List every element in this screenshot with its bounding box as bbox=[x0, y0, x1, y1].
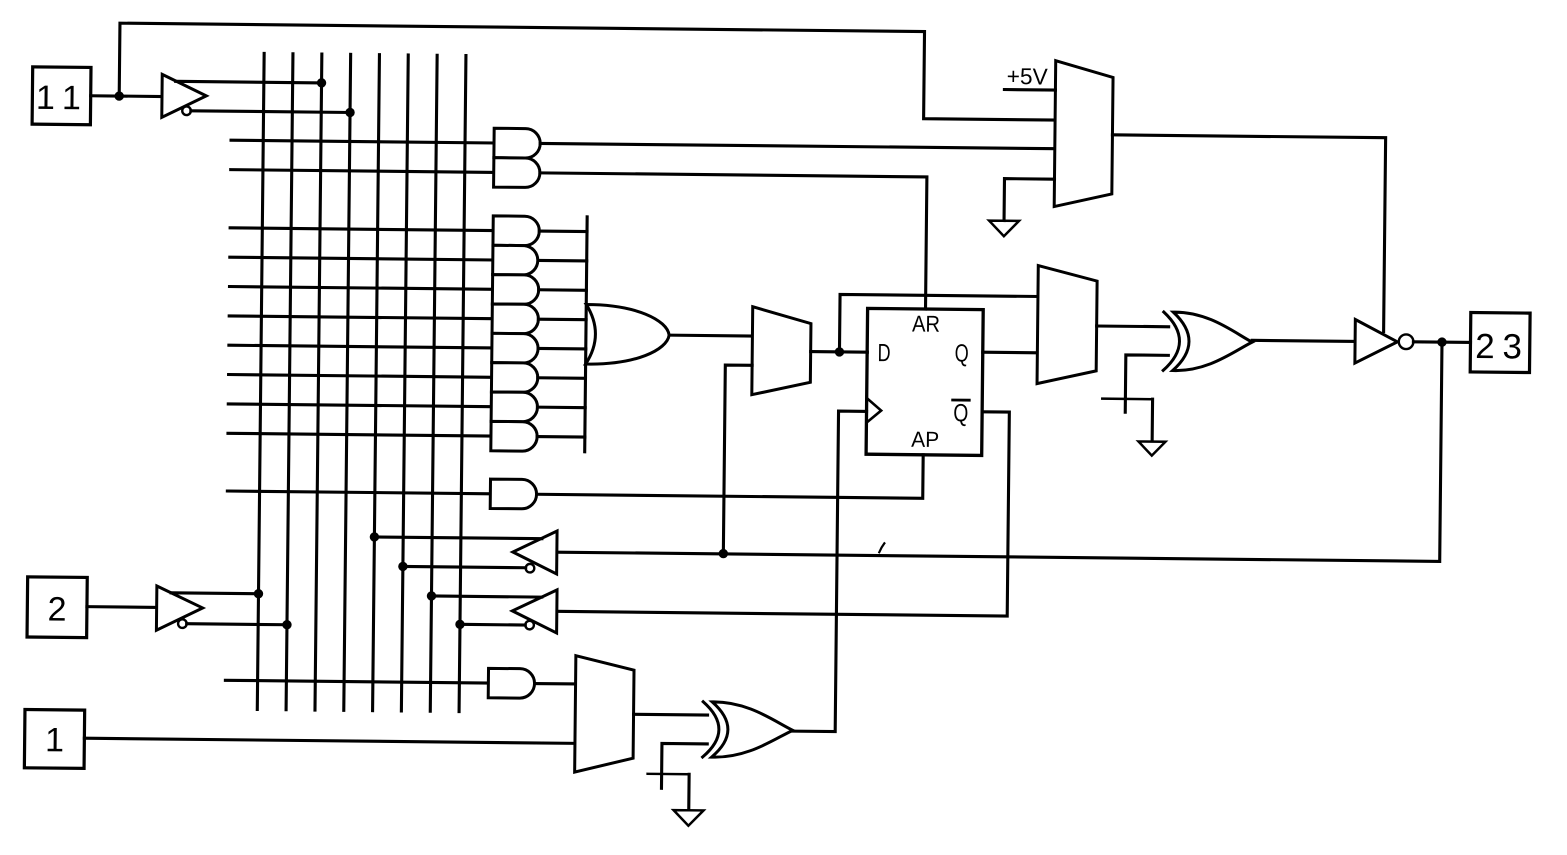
node tap c4 bbox=[345, 108, 354, 117]
node tap c6 bbox=[398, 562, 407, 571]
node tap c5 bbox=[370, 532, 379, 541]
svg-text:2: 2 bbox=[1475, 327, 1495, 366]
svg-text:2: 2 bbox=[47, 591, 66, 629]
AND gate A (row 1) bbox=[494, 128, 541, 158]
svg-text:D: D bbox=[877, 339, 890, 367]
OR gate (sum of products) bbox=[586, 304, 670, 364]
AND gate P7 bbox=[491, 392, 538, 422]
AND-array row 12 (OE product term) bbox=[225, 680, 488, 683]
wire output feedback to TRI1 bbox=[557, 333, 1442, 562]
ground (mux2 input) bbox=[989, 221, 1019, 237]
flip-flop clock triangle bbox=[866, 398, 881, 423]
AND-array row 7 (product term 5) bbox=[229, 345, 492, 348]
input pin box 1 bbox=[24, 710, 84, 769]
AND-array column 7 bbox=[430, 55, 437, 711]
buffer B2 (pin 2 input buffer) bbox=[156, 586, 202, 631]
feedback buffer TRI2 bbox=[512, 589, 557, 633]
ground (XOR2) bbox=[673, 810, 703, 826]
bubble B2 inverted bbox=[178, 619, 187, 628]
AND-array column 5 bbox=[373, 55, 380, 711]
node output 23 junction bbox=[1437, 337, 1446, 346]
wire XOR2 lower input fuse bbox=[661, 743, 707, 788]
AND gate P4 bbox=[492, 304, 539, 334]
wire XOR2 output to clock bbox=[793, 411, 867, 732]
wire fuse to ground (XOR1) bbox=[1151, 399, 1155, 440]
mux M4 (OE select) bbox=[575, 656, 635, 773]
wire Qbar to TRI2 bbox=[557, 407, 1010, 616]
AND gate P6 bbox=[491, 363, 538, 393]
XOR gate X2 input arc bbox=[703, 702, 720, 757]
AND-array column 6 bbox=[401, 55, 408, 711]
wire mux4 output to XOR2 bbox=[634, 713, 708, 717]
wire XOR1 to tristate bbox=[1252, 340, 1355, 341]
XOR gate X1 body bbox=[1173, 312, 1253, 371]
bubble TRI1 inverted bbox=[526, 564, 535, 573]
fuse bar (XOR1 polarity) bbox=[1102, 397, 1152, 400]
bubble tristate output bbox=[1399, 334, 1414, 349]
tristate inverter Q1 bbox=[1355, 320, 1398, 364]
mux M2 (clock select) bbox=[1054, 61, 1113, 207]
AND-array row 5 (product term 3) bbox=[230, 287, 493, 290]
svg-text:AP: AP bbox=[911, 427, 939, 452]
svg-text:+5V: +5V bbox=[1007, 63, 1049, 89]
wire mux3 output to XOR1 bbox=[1097, 324, 1169, 328]
wire P7 output stub bbox=[537, 406, 585, 410]
AND-array column 8 bbox=[459, 56, 466, 712]
AND-array column 4 bbox=[344, 54, 351, 710]
wire P3 output stub bbox=[539, 288, 587, 292]
svg-text:Q: Q bbox=[955, 340, 969, 368]
mux M1 (D-source select) bbox=[752, 307, 811, 396]
svg-text:1: 1 bbox=[62, 79, 81, 117]
node pin11 feedback junction bbox=[114, 91, 123, 100]
flip-flop U1 box bbox=[866, 308, 983, 455]
AND gate P3 bbox=[492, 275, 539, 305]
XOR gate X2 body bbox=[712, 702, 793, 758]
svg-text:1: 1 bbox=[36, 79, 55, 117]
wire AND-AP output to AP input bbox=[537, 451, 924, 499]
wire P5 output stub bbox=[538, 347, 586, 351]
node tap c2 bbox=[282, 620, 291, 629]
wire +5V input bbox=[1004, 88, 1055, 92]
AND gate P5 bbox=[492, 333, 539, 363]
wire D-node up to mux3 bbox=[839, 294, 1037, 354]
wire pin11 to buffer bbox=[91, 94, 162, 98]
bubble TRI2 inverted bbox=[525, 621, 534, 630]
ground (XOR1 polarity) bbox=[1138, 441, 1165, 455]
wire B2 inverted output to column 2 bbox=[187, 624, 287, 625]
wire AND-OE output to mux4 bbox=[535, 682, 576, 686]
wire pin11 to clock mux (top run) bbox=[119, 23, 1056, 120]
wire mux1 output to D bbox=[811, 350, 868, 354]
wire P4 output stub bbox=[538, 318, 586, 322]
AND-array row 10 (product term 8) bbox=[228, 433, 491, 436]
AND-array column 3 bbox=[315, 54, 322, 710]
AND gate P8 bbox=[491, 421, 538, 451]
wire AND-A to clock mux bbox=[540, 143, 1055, 149]
wire B11 true output to column 3 bbox=[176, 81, 322, 83]
input pin box 2 bbox=[27, 577, 87, 638]
node tap c7 bbox=[427, 591, 436, 600]
wire Q to mux3 bbox=[983, 351, 1038, 355]
buffer B11 (pin 11 input buffer) bbox=[162, 74, 207, 117]
fuse bar (XOR2) bbox=[648, 773, 689, 776]
AND gate B (row 2) bbox=[494, 158, 540, 188]
wire mux1 lower input from feedback bbox=[723, 365, 752, 554]
speck bbox=[879, 543, 884, 552]
wire P6 output stub bbox=[538, 376, 586, 380]
mux M3 (output select) bbox=[1037, 266, 1097, 385]
wire P8 output stub bbox=[537, 435, 585, 439]
node tap c3 bbox=[317, 78, 326, 87]
wire pin2 to buffer bbox=[87, 605, 157, 609]
svg-text:AR: AR bbox=[912, 310, 940, 336]
AND-array row 9 (product term 7) bbox=[228, 404, 491, 407]
AND-array column 1 bbox=[257, 53, 264, 709]
output pin box 23 bbox=[1470, 313, 1530, 373]
wire pin1 to mux4 bbox=[84, 738, 575, 743]
wire B11 inverted output to column 4 bbox=[191, 111, 350, 113]
wire TRI1 true output to column 5 bbox=[374, 537, 541, 539]
wire XOR1 lower input fuse bbox=[1125, 355, 1168, 413]
wire fuse to ground (XOR2) bbox=[687, 774, 690, 809]
svg-text:Q: Q bbox=[953, 399, 968, 427]
node tap c8 bbox=[455, 620, 464, 629]
wire product-term bus vertical bbox=[585, 217, 587, 452]
AND-array row 6 (product term 4) bbox=[229, 316, 492, 319]
node tap c1 bbox=[254, 589, 263, 598]
AND-array row 2 (top AND pair input) bbox=[231, 170, 494, 173]
AND gate P2 bbox=[493, 245, 538, 275]
AND-array row 8 (product term 6) bbox=[229, 375, 492, 378]
wire tristate to pin 23 bbox=[1413, 340, 1470, 344]
AND-array row 11 (AP product term) bbox=[227, 491, 490, 494]
wire P2 output stub bbox=[539, 259, 587, 263]
wire AND-B to AR input bbox=[539, 173, 927, 309]
wire mux2 ground input bbox=[1004, 179, 1054, 221]
AND gate AP term (row 11) bbox=[490, 479, 537, 509]
wire mux2 output to OE bbox=[1110, 135, 1385, 332]
bubble B11 inverted output bbox=[182, 106, 191, 115]
AND-array row 3 (product term 1) bbox=[230, 228, 493, 231]
svg-text:1: 1 bbox=[45, 721, 64, 759]
feedback buffer TRI1 bbox=[513, 531, 557, 574]
wire P1 output stub bbox=[539, 230, 587, 234]
svg-text:3: 3 bbox=[1502, 327, 1522, 366]
wire TRI2 inverted output to column 8 bbox=[460, 623, 525, 627]
wire OR output to mux1 bbox=[669, 334, 752, 338]
node D input junction bbox=[835, 347, 844, 356]
wire B2 true output to column 1 bbox=[171, 591, 258, 595]
AND-array row 4 (product term 2) bbox=[230, 257, 493, 260]
input pin box 11 bbox=[32, 67, 91, 125]
wire TRI1 inverted output to column 6 bbox=[403, 566, 526, 567]
node feedback to mux1 junction bbox=[719, 549, 728, 558]
XOR gate X1 input arc bbox=[1163, 312, 1180, 371]
AND-array column 2 bbox=[286, 54, 293, 710]
wire TRI2 true output to column 7 bbox=[431, 596, 541, 597]
AND gate P1 bbox=[493, 216, 539, 246]
AND-array row 1 (top AND pair input) bbox=[231, 140, 494, 143]
AND gate OE term (row 12) bbox=[488, 668, 534, 698]
